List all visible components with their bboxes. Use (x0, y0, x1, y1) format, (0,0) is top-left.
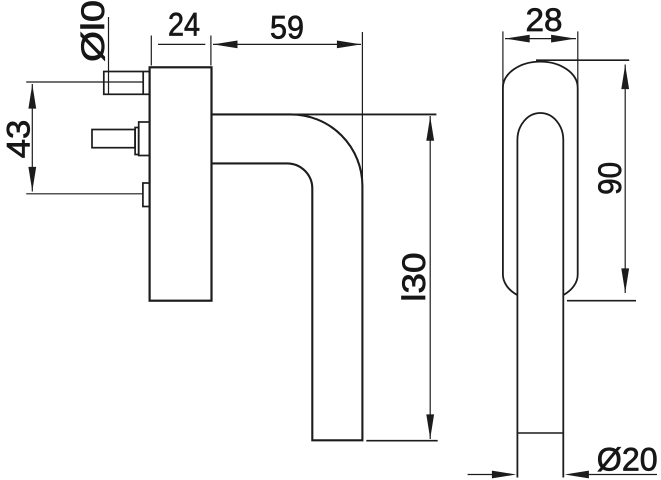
svg-text:24: 24 (168, 6, 200, 42)
dim 43 line (31, 84, 33, 192)
dim 28 extension lines (503, 31, 578, 86)
spindle (92, 122, 150, 156)
dim 24 line (158, 43, 205, 45)
dim 59 right extension line (361, 32, 363, 186)
dim 130 bottom extension line (366, 440, 437, 442)
dim 28 line (505, 38, 576, 40)
dim 90 line (624, 65, 626, 294)
svg-text:Ø20: Ø20 (597, 442, 658, 478)
arrow dim59 right (337, 41, 361, 49)
grip front view (white fill cover) (517, 113, 563, 478)
dim 43 extension lines (26, 82, 144, 194)
dim 90 top extension line (536, 59, 629, 61)
svg-text:59: 59 (270, 10, 304, 46)
arrow dim43 bottom (28, 167, 36, 191)
dim 90 bottom extension line (567, 300, 636, 302)
grip front view outline (517, 113, 563, 478)
arrow dia20 right (565, 471, 589, 479)
svg-text:l30: l30 (396, 253, 432, 302)
dim dia20 right line (580, 474, 657, 476)
arrow dia20 left (492, 471, 516, 479)
rosette plate (side view) (150, 67, 212, 300)
grip end cap line (front view) (517, 432, 563, 434)
handle outline (side view) (212, 114, 363, 440)
arrow dim28 left (505, 35, 529, 43)
dim 130 top extension line (291, 113, 437, 115)
dia10 dimension line (108, 17, 110, 95)
arrow dim130 bottom (426, 414, 434, 438)
rosette outline (front view) (503, 62, 578, 296)
dim 59 line (213, 43, 361, 45)
dim 24 extension lines (151, 36, 211, 66)
svg-text:43: 43 (1, 120, 37, 159)
arrow dim90 top (621, 65, 629, 89)
dim dia20 left line (468, 474, 500, 476)
svg-text:28: 28 (526, 2, 563, 38)
arrow dim43 top (28, 84, 36, 108)
svg-text:Øl0: Øl0 (75, 0, 111, 62)
arrow dim59 left (213, 41, 237, 49)
arrow dim90 bottom (621, 268, 629, 292)
dim 130 line (429, 116, 431, 439)
bottom screw stub (143, 183, 150, 207)
arrow dim28 right (551, 35, 575, 43)
svg-text:90: 90 (592, 162, 628, 195)
arrow dim130 top (426, 117, 434, 141)
top screw (104, 72, 150, 95)
